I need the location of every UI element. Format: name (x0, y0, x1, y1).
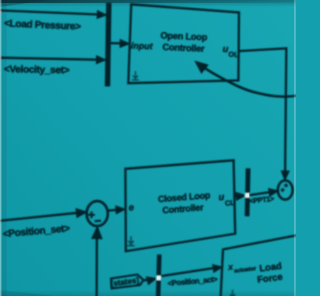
bottom-left corner shade (0, 290, 55, 296)
svg-text:<Velocity_set>: <Velocity_set> (4, 64, 70, 76)
left edge light strip (0, 0, 1, 296)
badge icon LF block (229, 290, 236, 296)
label <PPT1> (249, 194, 274, 206)
badge icon OL block (132, 71, 139, 80)
wire Position_set (0, 208, 87, 221)
from tag [states] (111, 275, 144, 289)
label <Velocity_set> (4, 64, 70, 76)
wire bottom input into left sum (92, 227, 102, 296)
label Open Loop Controller (160, 30, 208, 53)
badge icon CL block (127, 236, 134, 245)
label u_CL (218, 190, 236, 208)
wire PPT1 to right sum (249, 187, 279, 196)
wire u_OL output to right sum (238, 48, 289, 180)
wire u_CL to bar2 (236, 192, 246, 201)
annotation curved arrow (194, 60, 297, 97)
sum junction left (87, 201, 108, 226)
plus sign left in right sum (281, 188, 285, 192)
svg-text:e: e (128, 201, 134, 212)
svg-text:Controller: Controller (162, 42, 205, 54)
pink artifact mid-left (0, 56, 1, 59)
bottom vignette (0, 0, 1, 1)
sum junction right (278, 180, 293, 199)
wire Load Pressure (0, 10, 107, 18)
white notch on bar 3 (157, 276, 161, 280)
label <Position_set> (2, 223, 70, 240)
white notch on bar 2 (245, 193, 249, 197)
label <Position_act> (167, 275, 218, 288)
wire Velocity_set (0, 56, 106, 64)
svg-text:input: input (131, 40, 154, 51)
wire Position_act to Load Force (161, 263, 223, 276)
label <Load Pressure> (4, 18, 82, 32)
label input (131, 40, 154, 51)
svg-text:OL: OL (228, 50, 239, 59)
block Open Loop Controller (128, 4, 239, 83)
block Load Force (221, 235, 297, 296)
label Closed Loop Controller (158, 190, 212, 215)
bus selector bar 3 (158, 254, 159, 296)
bus selector bar 2 (247, 168, 248, 216)
label u_OL (222, 43, 239, 59)
bus creator bar 1 (108, 3, 109, 87)
top vignette (0, 0, 1, 1)
right edge light strip (294, 0, 295, 296)
wire states tag to bar3 (144, 275, 158, 285)
svg-text:CL: CL (225, 198, 236, 208)
label [states] (110, 276, 140, 289)
label Load Force (256, 260, 283, 285)
plus sign in left sum (88, 212, 95, 219)
white notch cores (246, 194, 249, 197)
plus sign top in right sum (284, 183, 288, 187)
label e (128, 201, 134, 212)
top-left corner shade (0, 0, 48, 7)
block Closed Loop Controller (125, 160, 235, 251)
svg-text:Open Loop: Open Loop (160, 30, 208, 42)
wire left sum to e port (108, 205, 125, 213)
minus sign in left sum (95, 220, 102, 222)
pink artifact top-left (0, 11, 1, 14)
label x_actuator (227, 259, 258, 276)
wire bar1 to input port (110, 40, 130, 48)
